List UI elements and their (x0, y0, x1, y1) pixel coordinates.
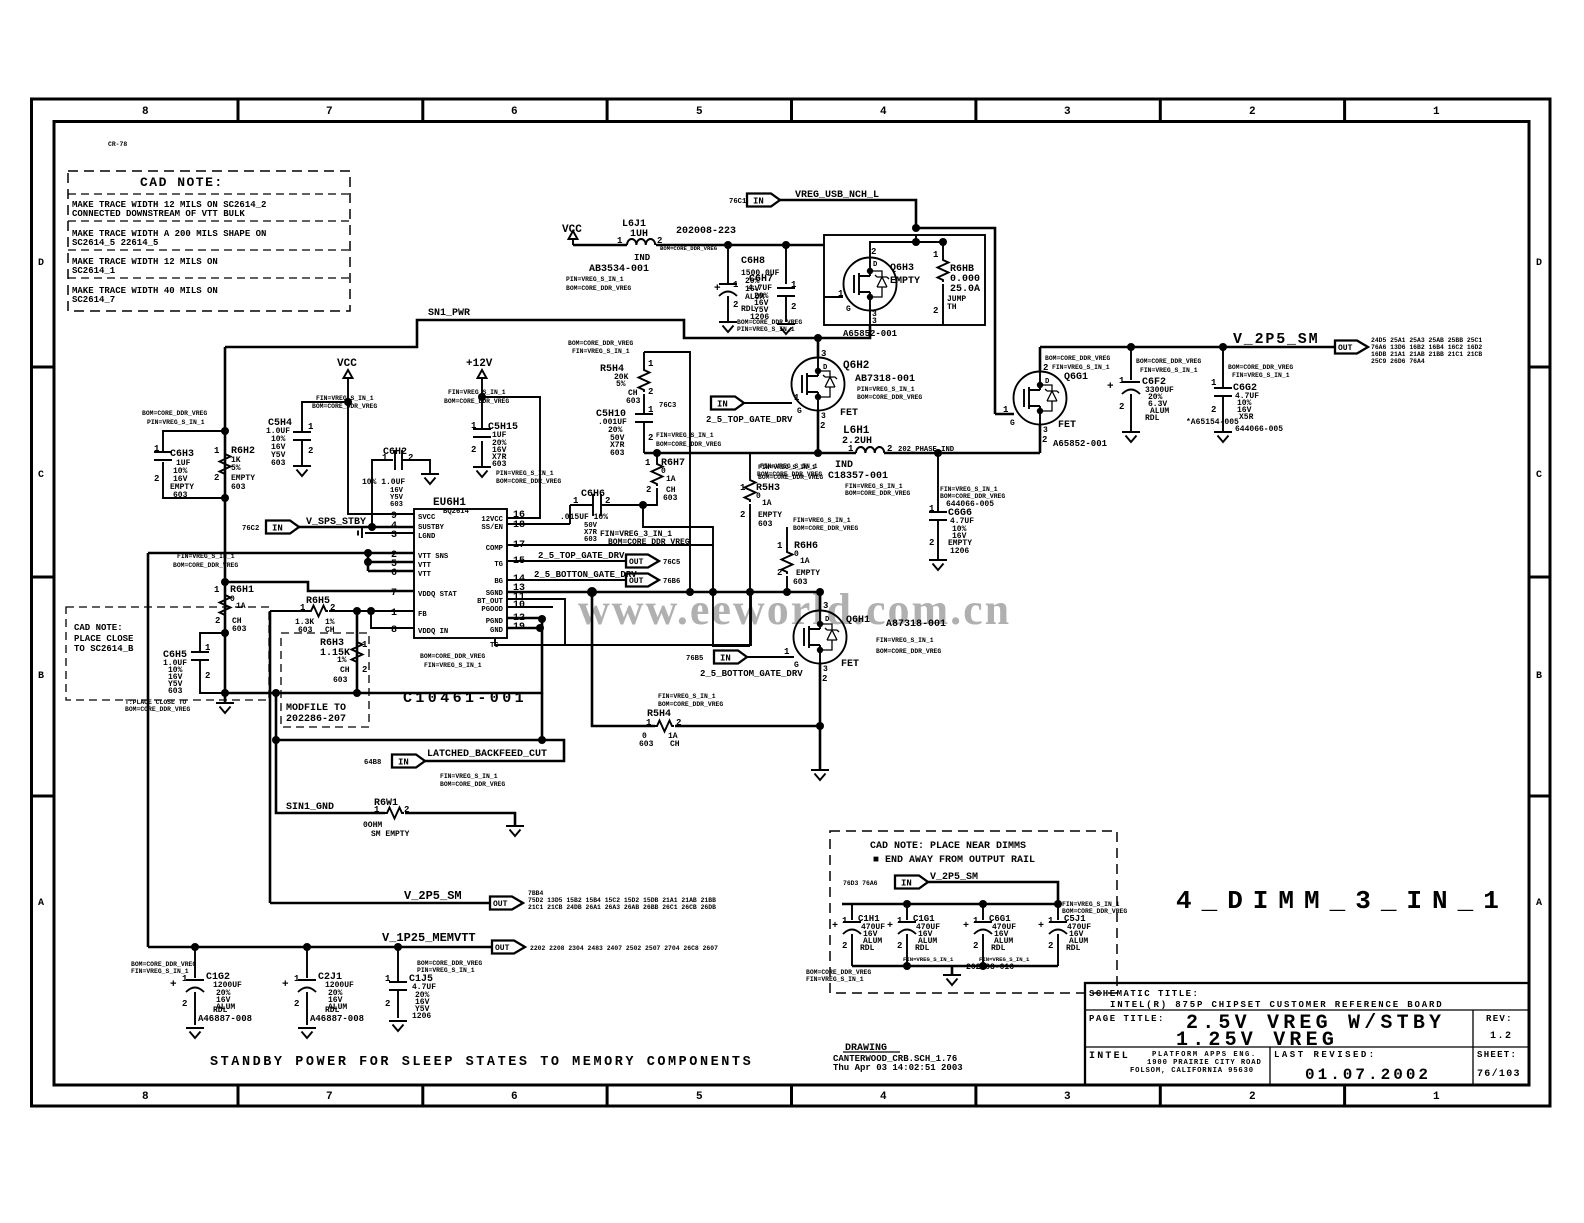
svg-text:SM EMPTY: SM EMPTY (371, 830, 410, 839)
transistor Q6H1 (784, 592, 946, 726)
ground under C6H7 (777, 324, 795, 334)
svg-text:7: 7 (326, 1091, 333, 1103)
svg-text:LAST REVISED:: LAST REVISED: (1274, 1050, 1377, 1060)
svg-text:FIN=VREG_S_IN_1: FIN=VREG_S_IN_1 (448, 389, 506, 396)
CAD NOTE box (place near dimms) (830, 831, 1117, 993)
svg-text:FIN=VREG_S_IN_1: FIN=VREG_S_IN_1 (177, 553, 235, 560)
svg-text:BOM=CORE_DDR_VREG: BOM=CORE_DDR_VREG (737, 319, 802, 326)
svg-text:3: 3 (391, 530, 397, 541)
inductor L6J1 (566, 219, 736, 292)
svg-text:25.0A: 25.0A (950, 284, 980, 295)
svg-text:8: 8 (391, 625, 397, 636)
svg-text:FET: FET (841, 659, 859, 670)
ground under Q6H1 (819, 726, 822, 770)
svg-text:B: B (38, 671, 44, 682)
svg-text:BT_OUT: BT_OUT (477, 598, 504, 606)
svg-text:3: 3 (1043, 426, 1048, 435)
svg-text:+12V: +12V (466, 358, 493, 370)
capacitor C1H1 (832, 904, 885, 966)
wire left rail down to MEMVTT (147, 553, 150, 947)
svg-text:1: 1 (391, 608, 397, 619)
svg-text:603: 603 (663, 494, 678, 503)
svg-text:PLACE CLOSE: PLACE CLOSE (74, 634, 134, 644)
svg-text:Thu Apr 03 14:02:51 2003: Thu Apr 03 14:02:51 2003 (833, 1063, 963, 1073)
svg-text:75D2 13D5 15B2 15B4 15C2 15D2: 75D2 13D5 15B2 15B4 15C2 15D2 15DB 21A1 … (528, 897, 716, 904)
node 2_5_BOTTOM_GATE_DRV (in) (686, 651, 803, 680)
svg-text:SUSTBY: SUSTBY (418, 524, 445, 532)
svg-text:MODFILE TO: MODFILE TO (286, 703, 346, 714)
svg-text:LGND: LGND (418, 533, 436, 541)
svg-text:FIN=VREG_S_IN_1: FIN=VREG_S_IN_1 (658, 693, 716, 700)
svg-text:VTT: VTT (418, 571, 432, 579)
svg-text:PIN=VREG_S_IN_1: PIN=VREG_S_IN_1 (737, 326, 795, 333)
sheet port box 76C3 (644, 352, 690, 592)
capacitor C5J1 (1038, 904, 1091, 966)
svg-text:3: 3 (1064, 106, 1071, 118)
svg-text:SS/EN: SS/EN (481, 524, 503, 532)
svg-text:12VCC: 12VCC (481, 516, 503, 524)
svg-text:1: 1 (382, 453, 388, 463)
svg-text:A87318-001: A87318-001 (886, 619, 946, 630)
svg-text:SIN1_GND: SIN1_GND (286, 802, 334, 813)
resistor R6H7 (643, 453, 685, 505)
title block (1085, 983, 1529, 1085)
svg-text:5: 5 (696, 106, 703, 118)
svg-text:2: 2 (648, 387, 653, 397)
svg-text:3: 3 (872, 317, 877, 326)
svg-text:Q6H1: Q6H1 (846, 615, 870, 626)
ground under C5H4 (293, 466, 311, 476)
svg-text:16DB 21A1 21AB 21BB 21C1 21CB: 16DB 21A1 21AB 21BB 21C1 21CB (1371, 351, 1482, 358)
wire ground bus under EU6H1 (225, 611, 546, 697)
svg-text:FIN=VREG_S_IN_1: FIN=VREG_S_IN_1 (793, 517, 851, 524)
svg-text:603: 603 (390, 501, 403, 509)
svg-text:2: 2 (973, 941, 978, 951)
svg-text:4: 4 (880, 1091, 887, 1103)
svg-text:2: 2 (897, 941, 902, 951)
svg-text:1.2: 1.2 (1490, 1031, 1513, 1042)
svg-text:BOM=CORE_DDR_VREG: BOM=CORE_DDR_VREG (758, 474, 823, 481)
svg-text:603: 603 (584, 536, 597, 544)
svg-text:+: + (714, 283, 721, 295)
resistor R6H3 (320, 611, 368, 693)
power VCC (top) (562, 224, 582, 245)
svg-text:0: 0 (230, 595, 235, 604)
node LATCHED_BACKFEED_CUT (272, 693, 564, 788)
svg-text:OUT: OUT (495, 944, 510, 953)
svg-text:2: 2 (648, 433, 653, 443)
svg-text:0: 0 (794, 550, 799, 559)
svg-text:OUT: OUT (629, 558, 644, 567)
svg-text:T:PLACE CLOSE TO: T:PLACE CLOSE TO (125, 699, 187, 706)
svg-text:RDL: RDL (1145, 414, 1160, 423)
node SIN1_GND / resistor R6W1 (276, 740, 515, 839)
svg-text:OUT: OUT (1338, 344, 1353, 353)
svg-text:FIN=VREG_S_IN_1: FIN=VREG_S_IN_1 (876, 637, 934, 644)
inductor L6H1 (757, 425, 955, 497)
svg-text:+: + (1107, 381, 1114, 393)
svg-text:FIN=VREG_S_IN_1: FIN=VREG_S_IN_1 (656, 432, 714, 439)
svg-text:SC2614_5 22614_5: SC2614_5 22614_5 (72, 238, 158, 248)
svg-text:PGND: PGND (486, 618, 504, 626)
svg-text:5: 5 (696, 1091, 703, 1103)
svg-text:D: D (38, 258, 44, 269)
svg-text:1: 1 (1119, 376, 1125, 386)
svg-text:A46887-008: A46887-008 (198, 1014, 252, 1024)
svg-text:SGND: SGND (486, 590, 504, 598)
svg-text:INTEL(R) 875P CHIPSET CUSTOMER: INTEL(R) 875P CHIPSET CUSTOMER REFERENCE… (1110, 1000, 1444, 1010)
svg-text:FIN=VREG_S_IN_1: FIN=VREG_S_IN_1 (1062, 901, 1120, 908)
svg-text:603: 603 (173, 491, 188, 500)
svg-text:FIN=VREG_S_IN_1: FIN=VREG_S_IN_1 (903, 956, 954, 963)
svg-text:1.25V VREG: 1.25V VREG (1176, 1029, 1338, 1052)
svg-text:2: 2 (791, 302, 796, 312)
ground under C5H15 (473, 467, 491, 477)
svg-text:6: 6 (391, 568, 397, 579)
svg-text:PAGE TITLE:: PAGE TITLE: (1089, 1014, 1165, 1024)
svg-text:603: 603 (333, 676, 348, 685)
svg-text:.015UF 10%: .015UF 10% (560, 513, 608, 522)
svg-text:AB7318-001: AB7318-001 (855, 374, 915, 385)
svg-text:1: 1 (362, 640, 368, 650)
svg-text:603: 603 (758, 520, 773, 529)
svg-text:BOM=CORE_DDR_VREG: BOM=CORE_DDR_VREG (420, 653, 485, 660)
svg-text:INTEL: INTEL (1089, 1051, 1130, 1062)
svg-text:G: G (797, 407, 802, 416)
svg-text:18: 18 (513, 520, 525, 531)
capacitor C2J1 (282, 947, 364, 1025)
drawing stamp (833, 1043, 963, 1073)
svg-text:BOM=CORE_DDR_VREG: BOM=CORE_DDR_VREG (131, 961, 196, 968)
svg-text:SCHEMATIC TITLE:: SCHEMATIC TITLE: (1089, 989, 1199, 999)
svg-text:IN: IN (717, 399, 728, 409)
resistor R6H1 (214, 578, 254, 637)
svg-text:FIN=VREG_S_IN_1: FIN=VREG_S_IN_1 (979, 956, 1030, 963)
svg-text:2: 2 (362, 665, 367, 675)
svg-text:FIN=VREG_S_IN_1: FIN=VREG_S_IN_1 (440, 773, 498, 780)
svg-text:76C3: 76C3 (659, 402, 676, 410)
svg-text:202008-223: 202008-223 (676, 226, 736, 237)
svg-text:2: 2 (929, 538, 934, 548)
ground under left bus (221, 689, 229, 697)
svg-text:FIN=VREG_S_IN_1: FIN=VREG_S_IN_1 (1232, 372, 1290, 379)
svg-text:RDL: RDL (1066, 944, 1081, 953)
svg-text:1: 1 (471, 421, 477, 431)
svg-text:BOM=CORE_DDR_VREG: BOM=CORE_DDR_VREG (940, 493, 1005, 500)
svg-text:V_2P5_SM: V_2P5_SM (1233, 331, 1319, 348)
svg-text:PIN=VREG_S_IN_1: PIN=VREG_S_IN_1 (857, 386, 915, 393)
svg-text:7BB4: 7BB4 (528, 890, 544, 897)
svg-text:TH: TH (947, 303, 957, 312)
svg-text:BOM=CORE_DDR_VREG: BOM=CORE_DDR_VREG (656, 441, 721, 448)
svg-text:1: 1 (733, 280, 739, 290)
svg-text:BOM=CORE_DDR_VREG: BOM=CORE_DDR_VREG (125, 706, 190, 713)
svg-text:64B8: 64B8 (364, 759, 381, 767)
svg-text:VTT SNS: VTT SNS (418, 553, 449, 561)
svg-text:2: 2 (214, 473, 219, 483)
svg-text:1: 1 (848, 444, 854, 454)
svg-text:1: 1 (154, 444, 160, 454)
svg-text:D: D (1045, 378, 1050, 386)
svg-text:603: 603 (793, 578, 808, 587)
CAD NOTE box (place close) (66, 607, 269, 700)
svg-text:2: 2 (933, 306, 938, 316)
svg-text:2: 2 (1042, 435, 1047, 445)
svg-text:R6H5: R6H5 (306, 596, 330, 607)
wire VDDQ IN pin8 (371, 611, 414, 628)
svg-text:01.07.2002: 01.07.2002 (1305, 1066, 1431, 1084)
svg-text:5%: 5% (616, 380, 626, 389)
svg-text:IN: IN (272, 523, 283, 533)
capacitor C5H15 (444, 389, 561, 485)
svg-text:BOM=CORE_DDR_VREG: BOM=CORE_DDR_VREG (312, 403, 377, 410)
svg-text:SC2614_7: SC2614_7 (72, 295, 115, 305)
wire LGND pin3 stub (358, 528, 414, 538)
svg-text:1: 1 (646, 718, 652, 728)
svg-text:76D3 76A6: 76D3 76A6 (843, 880, 878, 887)
svg-text:3: 3 (823, 665, 828, 674)
svg-text:D: D (825, 616, 830, 624)
wire phase node (SW rail) (644, 449, 942, 457)
svg-text:1: 1 (205, 643, 211, 653)
svg-text:C6H8: C6H8 (741, 256, 765, 267)
svg-text:2: 2 (385, 999, 390, 1009)
svg-text:2: 2 (205, 671, 210, 681)
svg-text:IND: IND (835, 460, 853, 471)
svg-text:3: 3 (823, 601, 828, 611)
svg-text:+: + (963, 921, 969, 932)
capacitor C5H10 (568, 340, 721, 458)
svg-text:BOM=CORE_DDR_VREG: BOM=CORE_DDR_VREG (1045, 355, 1110, 362)
svg-text:D: D (1536, 258, 1542, 269)
svg-text:BOM=CORE_DDR_VREG: BOM=CORE_DDR_VREG (658, 701, 723, 708)
svg-text:1: 1 (973, 916, 979, 926)
transistor Q6H3 (empty FET) in box (824, 235, 985, 326)
svg-text:FET: FET (1058, 420, 1076, 431)
svg-text:76B5: 76B5 (686, 655, 703, 663)
svg-text:PIN=VREG_S_IN_1: PIN=VREG_S_IN_1 (147, 419, 205, 426)
svg-text:1: 1 (784, 647, 790, 657)
svg-text:V_1P25_MEMVTT: V_1P25_MEMVTT (382, 931, 476, 945)
svg-text:PLATFORM APPS ENG.: PLATFORM APPS ENG. (1152, 1051, 1257, 1059)
svg-text:BOM=CORE_DDR_VREG: BOM=CORE_DDR_VREG (173, 562, 238, 569)
svg-text:76C5: 76C5 (663, 559, 680, 567)
capacitor C1G1 (887, 904, 954, 966)
svg-text:X5R: X5R (1239, 413, 1254, 422)
svg-text:7: 7 (326, 106, 333, 118)
svg-text:2: 2 (182, 999, 187, 1009)
capacitor C6F2 (1107, 347, 1201, 432)
resistor R6HB (933, 242, 980, 325)
capacitor C1G2 (131, 947, 252, 1025)
svg-text:IND: IND (634, 253, 651, 263)
svg-text:BQ2614: BQ2614 (443, 508, 470, 516)
ground under R6W1 (506, 826, 524, 836)
svg-text:*A65154-005: *A65154-005 (1186, 418, 1239, 427)
svg-text:2: 2 (1249, 106, 1256, 118)
capacitor C6G1 (963, 904, 1030, 966)
svg-text:AB3534-001: AB3534-001 (589, 264, 649, 275)
svg-text:■ END AWAY FROM OUTPUT RAIL: ■ END AWAY FROM OUTPUT RAIL (873, 855, 1035, 866)
svg-text:CAD NOTE:: CAD NOTE: (140, 175, 224, 190)
svg-text:1: 1 (740, 483, 746, 493)
node V_2P5_SM (bottom out) (270, 889, 716, 911)
svg-text:603: 603 (168, 687, 183, 696)
svg-text:BOM=CORE_DDR_VREG: BOM=CORE_DDR_VREG (806, 969, 871, 976)
svg-text:+: + (832, 921, 838, 932)
svg-text:1%: 1% (337, 656, 347, 665)
svg-text:PIN=VREG_S_IN_1: PIN=VREG_S_IN_1 (566, 276, 624, 283)
svg-text:7: 7 (391, 588, 397, 599)
svg-text:Q6H3: Q6H3 (890, 263, 914, 274)
svg-text:OUT: OUT (493, 900, 508, 909)
svg-text:FIN=VREG_S_IN_1: FIN=VREG_S_IN_1 (572, 348, 630, 355)
wire VDDQ STAT pin7 (225, 582, 414, 591)
svg-text:G: G (1010, 419, 1015, 428)
wire main left vertical bus (224, 347, 227, 703)
svg-text:SHEET:: SHEET: (1477, 1050, 1517, 1060)
CAD NOTE box top-left (68, 171, 350, 311)
svg-text:REV:: REV: (1486, 1014, 1513, 1024)
svg-text:1: 1 (214, 446, 220, 456)
svg-text:BOM=CORE_DDR_VREG: BOM=CORE_DDR_VREG (440, 781, 505, 788)
svg-text:CR-78: CR-78 (108, 141, 127, 148)
svg-text:4: 4 (880, 106, 887, 118)
svg-text:FIN=VREG_S_IN_1: FIN=VREG_S_IN_1 (940, 486, 998, 493)
drawing sheet outer border frame (32, 99, 1551, 1106)
svg-text:IN: IN (720, 653, 731, 663)
svg-text:FIN=VREG_S_IN_1: FIN=VREG_S_IN_1 (806, 976, 864, 983)
svg-text:1: 1 (791, 280, 797, 290)
svg-text:CH: CH (670, 740, 680, 749)
svg-text:603: 603 (231, 483, 246, 492)
svg-text:VTT: VTT (418, 562, 432, 570)
svg-text:EMPTY: EMPTY (796, 569, 820, 578)
wire SN1_PWR (225, 308, 870, 347)
svg-text:1: 1 (933, 250, 939, 260)
node V_1P25_MEMVTT (bottom out) (148, 931, 718, 954)
svg-text:76A6 13D6 16B2 16B4 16C2 16D2: 76A6 13D6 16B2 16B4 16C2 16D2 (1371, 344, 1482, 351)
svg-text:2: 2 (308, 446, 313, 456)
svg-text:STANDBY POWER FOR SLEEP STATES: STANDBY POWER FOR SLEEP STATES TO MEMORY… (210, 1055, 753, 1070)
svg-text:1: 1 (182, 974, 188, 984)
svg-text:4_DIMM_3_IN_1: 4_DIMM_3_IN_1 (1176, 886, 1509, 916)
svg-text:2_5_BOTTON_GATE_DRV: 2_5_BOTTON_GATE_DRV (534, 570, 637, 580)
wire C6H6 node down to sgnd (643, 505, 750, 646)
svg-text:+: + (170, 979, 177, 991)
svg-text:1: 1 (777, 541, 783, 551)
svg-text:2: 2 (842, 941, 847, 951)
row labels left (38, 258, 44, 909)
svg-text:76C1: 76C1 (729, 198, 747, 206)
svg-text:644066-005: 644066-005 (1235, 425, 1283, 434)
svg-text:603: 603 (232, 625, 247, 634)
svg-text:PIN=VREG_S_IN_1: PIN=VREG_S_IN_1 (417, 967, 475, 974)
row labels right (1536, 258, 1542, 909)
svg-text:1: 1 (308, 422, 314, 432)
svg-text:LATCHED_BACKFEED_CUT: LATCHED_BACKFEED_CUT (427, 749, 547, 760)
svg-text:2: 2 (740, 510, 745, 520)
svg-text:FIN=VREG_S_IN_1: FIN=VREG_S_IN_1 (316, 395, 374, 402)
svg-text:21C1 21CB 24DB 26A1 26A3 26AB: 21C1 21CB 24DB 26A1 26A3 26AB 26BB 26C1 … (528, 904, 716, 911)
svg-text:BOM=CORE_DDR_VREG: BOM=CORE_DDR_VREG (793, 525, 858, 532)
svg-text:6: 6 (511, 106, 518, 118)
svg-text:1: 1 (1211, 378, 1217, 388)
svg-text:C: C (38, 470, 44, 481)
svg-text:0OHM: 0OHM (363, 821, 382, 830)
svg-text:1206: 1206 (412, 1012, 431, 1021)
svg-text:G: G (846, 305, 851, 314)
svg-text:603: 603 (271, 459, 286, 468)
svg-text:1: 1 (648, 359, 654, 369)
svg-text:2: 2 (154, 474, 159, 484)
svg-text:1: 1 (1433, 106, 1440, 118)
svg-text:1: 1 (1048, 916, 1054, 926)
svg-text:1: 1 (385, 974, 391, 984)
svg-text:GND: GND (490, 627, 504, 635)
svg-text:+: + (887, 921, 893, 932)
svg-text:1: 1 (645, 458, 651, 468)
resistor R6H6 (777, 517, 858, 592)
svg-text:1: 1 (1433, 1091, 1440, 1103)
svg-text:C: C (1536, 470, 1542, 481)
svg-text:VDDQ STAT: VDDQ STAT (418, 591, 458, 599)
transistor Q6H2 (792, 338, 923, 453)
svg-text:A: A (1536, 898, 1542, 909)
svg-text:1A: 1A (762, 499, 772, 508)
ground under C6H8 (719, 322, 737, 332)
svg-text:FIN=VREG_S_IN_1: FIN=VREG_S_IN_1 (424, 662, 482, 669)
svg-text:603: 603 (639, 740, 654, 749)
svg-text:2: 2 (1119, 402, 1124, 412)
svg-text:1: 1 (838, 289, 844, 299)
svg-text:2: 2 (471, 445, 476, 455)
svg-text:FOLSOM, CALIFORNIA 95630: FOLSOM, CALIFORNIA 95630 (1130, 1067, 1254, 1075)
svg-text:2: 2 (1249, 1091, 1256, 1103)
svg-text:COMP: COMP (486, 545, 504, 553)
svg-text:2: 2 (822, 674, 827, 684)
svg-text:2: 2 (777, 568, 782, 578)
svg-text:0: 0 (756, 492, 761, 501)
svg-text:1A: 1A (800, 557, 810, 566)
capacitor C6H8 (714, 245, 780, 322)
svg-text:2: 2 (676, 718, 681, 728)
svg-text:A: A (38, 898, 44, 909)
capacitor C6H3 (142, 410, 229, 502)
node V_2P5_SM (top out) (1040, 331, 1482, 365)
svg-text:CAD NOTE:: CAD NOTE: (74, 623, 123, 633)
node 2_5_BOTTON_GATE_DRV (out) (507, 570, 680, 587)
power +12V (466, 358, 540, 518)
resistor R5H4 (600, 352, 654, 414)
svg-text:+: + (1038, 921, 1044, 932)
svg-text:BOM=CORE_DDR_VREG: BOM=CORE_DDR_VREG (566, 285, 631, 292)
svg-text:BOM=CORE_DDR_VREG: BOM=CORE_DDR_VREG (142, 410, 207, 417)
node 2_5_TOP_GATE_DRV (in) (706, 397, 793, 426)
svg-text:BOM=CORE_DDR_VREG: BOM=CORE_DDR_VREG (568, 340, 633, 347)
svg-text:8: 8 (142, 106, 149, 118)
svg-text:25C9 26D6 76A4: 25C9 26D6 76A4 (1371, 358, 1425, 365)
svg-text:24D5 25A1 25A3 25AB 25BB 25C1: 24D5 25A1 25A3 25AB 25BB 25C1 (1371, 337, 1482, 344)
svg-text:B: B (1536, 671, 1542, 682)
svg-text:RDL: RDL (915, 944, 930, 953)
resistor R6H5 (270, 596, 414, 635)
svg-text:603: 603 (610, 449, 625, 458)
svg-text:2: 2 (733, 300, 738, 310)
svg-text:EMPTY: EMPTY (231, 474, 255, 483)
capacitor C6H2 (362, 447, 430, 527)
svg-text:FB: FB (418, 611, 427, 619)
